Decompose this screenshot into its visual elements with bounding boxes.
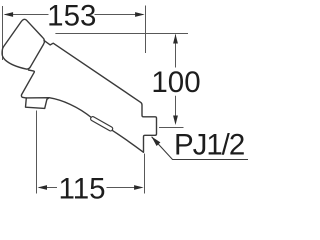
svg-text:PJ1/2: PJ1/2 <box>174 129 244 162</box>
svg-text:100: 100 <box>151 66 200 99</box>
svg-text:115: 115 <box>58 172 105 202</box>
svg-text:153: 153 <box>47 0 96 32</box>
